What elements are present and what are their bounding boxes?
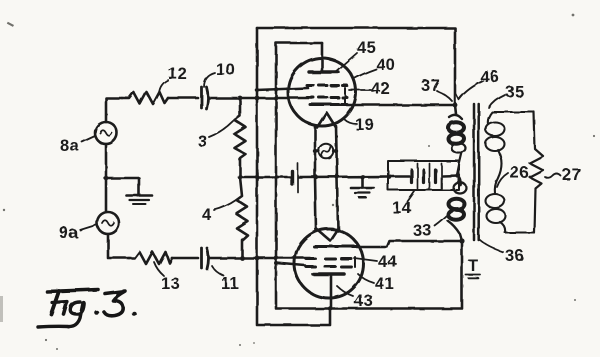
svg-text:10: 10 <box>216 61 235 79</box>
tube V2 grid side rod <box>354 257 356 267</box>
leader 14 <box>407 191 414 201</box>
T mark underline <box>466 275 481 278</box>
leader 4 <box>214 200 236 210</box>
svg-text:8a: 8a <box>60 137 80 155</box>
transformer secondary 26 <box>488 112 534 124</box>
svg-text:42: 42 <box>371 80 390 98</box>
tube V2 grid row upper 44 <box>306 257 351 260</box>
svg-text:36: 36 <box>505 247 524 265</box>
wire R13 to C11 <box>172 257 198 260</box>
leader 8a <box>82 136 95 142</box>
svg-text:14: 14 <box>392 199 412 217</box>
leader 37 <box>437 91 452 101</box>
resistor R13 <box>129 252 172 264</box>
svg-text:33: 33 <box>413 222 432 240</box>
tube V2 cathode line to transformer bottom <box>357 241 462 247</box>
leader 3 <box>209 121 233 137</box>
leader 41 <box>358 274 374 283</box>
svg-text:35: 35 <box>505 83 524 101</box>
leader 44 <box>354 258 377 261</box>
outer top wire <box>257 28 455 105</box>
leader 40 <box>353 69 376 79</box>
tube V1 plate bar 45 <box>309 70 338 73</box>
svg-text:4: 4 <box>202 206 212 224</box>
resistor R4 with leads <box>237 177 248 258</box>
filament meter <box>315 150 336 153</box>
leader 42 <box>349 89 371 91</box>
inner loop wire V2 <box>276 43 330 309</box>
svg-text:41: 41 <box>375 275 394 293</box>
leader 26 <box>497 173 508 187</box>
wire top-left from 8a to resistor 12 <box>106 98 122 122</box>
svg-text:12: 12 <box>168 65 187 83</box>
load resistor 27 loop <box>530 112 544 233</box>
leader 33 <box>435 215 448 226</box>
svg-text:T: T <box>468 257 479 275</box>
svg-text:37: 37 <box>421 77 440 95</box>
svg-text:27: 27 <box>562 166 581 184</box>
battery cells inside 14 <box>390 175 409 178</box>
tube V2 lower grid lead <box>276 263 305 266</box>
AC source 9a <box>97 212 119 234</box>
bottom line to transformer <box>330 241 462 309</box>
transformer core 46 <box>473 104 476 240</box>
leader 9a <box>80 225 96 230</box>
svg-text:45: 45 <box>357 39 376 57</box>
wire input line to top tube grid <box>209 97 312 100</box>
battery B1 plates <box>290 171 293 184</box>
wire 8a to 9a <box>105 144 108 212</box>
leader 43 <box>337 286 353 296</box>
svg-text:43: 43 <box>354 292 373 310</box>
tube V1 grid row lower 42 <box>307 96 347 99</box>
tube V2 cathode bar <box>314 245 357 248</box>
tube V2 circle (41) <box>295 229 364 298</box>
tube V1 circle (40) <box>288 58 356 126</box>
resistor R12 <box>122 92 168 104</box>
wire 9a to bottom line <box>108 234 129 258</box>
tube V1 plate lead <box>321 43 324 71</box>
transformer primary bottom coil 33 <box>457 175 461 185</box>
svg-text:9a: 9a <box>59 224 79 242</box>
wire R12 to C10 <box>168 97 198 100</box>
leader 35 <box>489 95 505 108</box>
leader 27 <box>545 174 561 178</box>
tube V1 cathode bar <box>310 103 347 106</box>
ground symbol middle <box>361 177 364 188</box>
leader 11 <box>212 266 224 276</box>
tube V2 filament <box>316 229 338 241</box>
ground branch left <box>106 178 139 195</box>
leader 36 <box>480 240 503 252</box>
tube V1 grid row upper <box>307 84 347 87</box>
tube V2 plate bar 43 <box>313 272 344 276</box>
tube V1 filament 19 <box>317 113 336 128</box>
ground symbol left <box>127 194 153 197</box>
reference numeral labels <box>59 39 581 310</box>
wire bottom input line to bottom tube grid <box>210 257 311 260</box>
resistor R3 with leads <box>235 98 246 177</box>
tube V2 grid row lower <box>306 265 351 268</box>
leader 10 <box>204 73 215 87</box>
svg-text:11: 11 <box>221 275 239 293</box>
outer loop wire V1 <box>257 28 330 325</box>
Fig.3. caption <box>38 290 136 328</box>
top tube upper grid lead <box>256 88 308 90</box>
leader 12 <box>159 80 168 93</box>
tube V2 plate lead <box>330 274 333 309</box>
capacitor C10 <box>200 87 203 108</box>
svg-text:19: 19 <box>355 116 374 134</box>
cathode line to transformer top <box>347 104 455 107</box>
svg-text:44: 44 <box>378 253 398 271</box>
tube V1 grid side rod <box>344 88 346 104</box>
battery box 14 <box>388 161 459 190</box>
svg-text:13: 13 <box>161 275 180 293</box>
svg-text:3: 3 <box>198 133 208 151</box>
AC source 8a <box>95 122 117 144</box>
leader 45 <box>335 53 357 72</box>
capacitor C11 <box>200 248 203 268</box>
transformer primary top coil 35 <box>455 105 456 114</box>
mid bias line <box>240 176 290 179</box>
filament wires down <box>315 126 316 231</box>
leader 46 with arrow <box>459 81 483 99</box>
leader 19 <box>344 119 357 124</box>
svg-text:26: 26 <box>510 164 529 182</box>
svg-text:40: 40 <box>376 56 395 74</box>
svg-text:46: 46 <box>480 68 499 86</box>
leader 13 <box>154 262 164 276</box>
